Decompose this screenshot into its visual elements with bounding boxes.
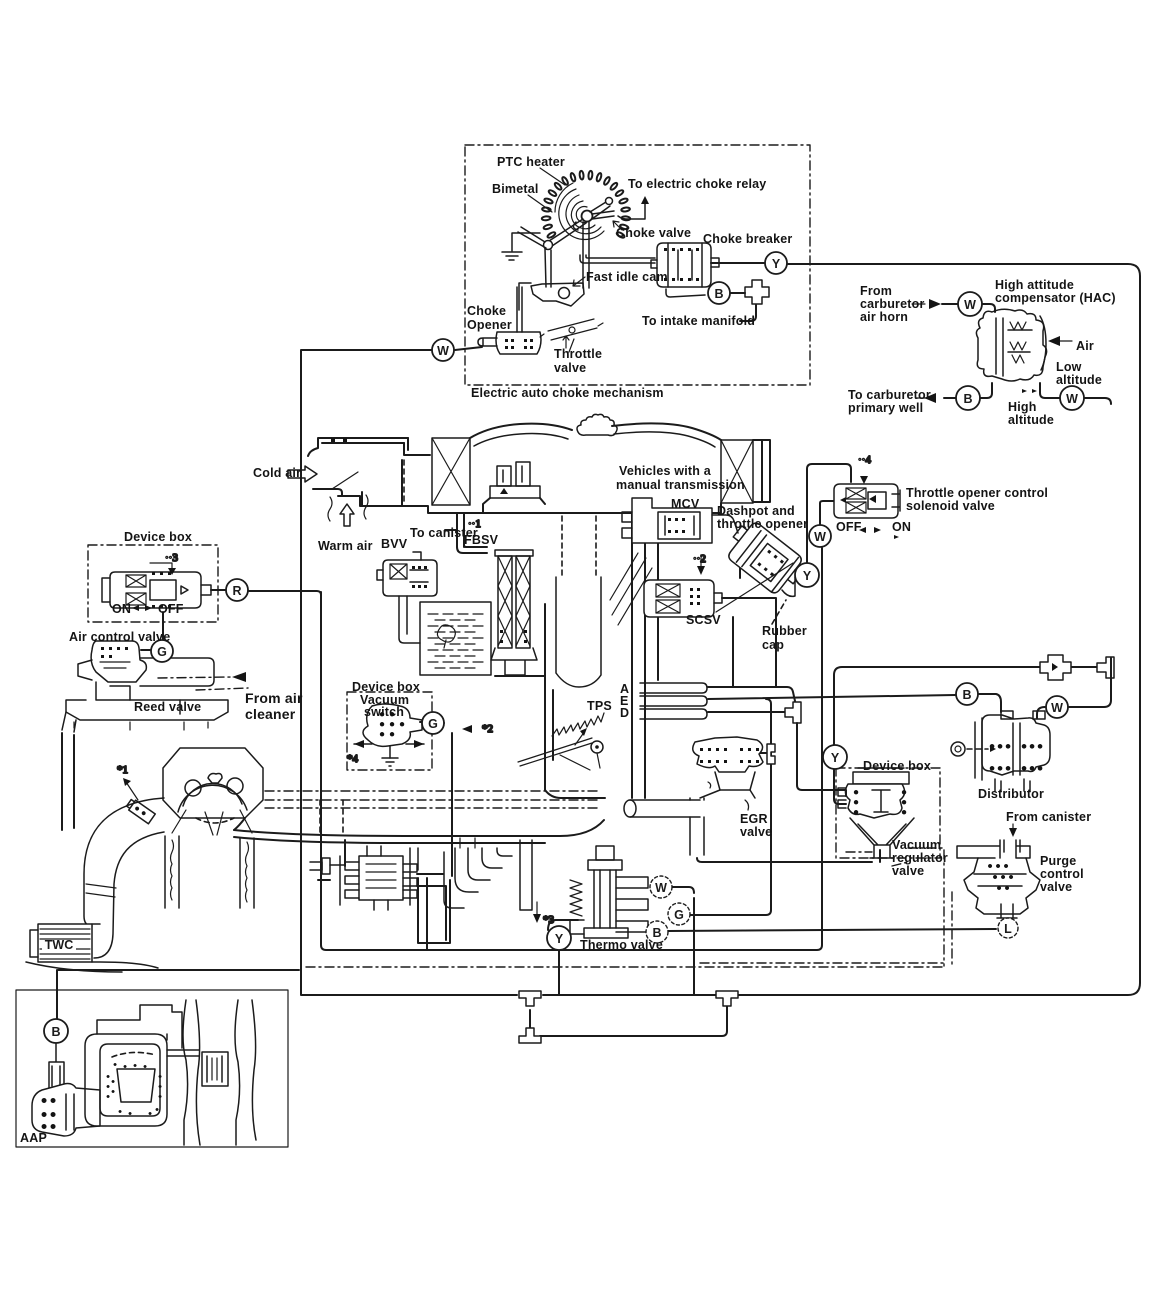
svg-text:W: W	[1051, 701, 1063, 715]
svg-text:ON: ON	[112, 602, 131, 616]
svg-text:Choke valve: Choke valve	[616, 226, 691, 240]
svg-text:solenoid valve: solenoid valve	[906, 499, 995, 513]
svg-text:B: B	[963, 392, 972, 406]
svg-text:BVV: BVV	[381, 537, 408, 551]
svg-text:switch: switch	[364, 705, 404, 719]
svg-text:Fast idle cam: Fast idle cam	[586, 270, 668, 284]
svg-text:To carburetor: To carburetor	[848, 388, 931, 402]
svg-text:W: W	[964, 298, 976, 312]
svg-text:air horn: air horn	[860, 310, 908, 324]
svg-text:Bimetal: Bimetal	[492, 182, 539, 196]
svg-text:Choke: Choke	[467, 304, 506, 318]
svg-text:Device box: Device box	[863, 759, 931, 773]
svg-text:Dashpot and: Dashpot and	[717, 504, 795, 518]
svg-text:PTC heater: PTC heater	[497, 155, 565, 169]
svg-text:W: W	[814, 530, 826, 544]
svg-text:OFF: OFF	[836, 520, 862, 534]
svg-text:Y: Y	[555, 932, 564, 946]
svg-text:control: control	[1040, 867, 1084, 881]
svg-text:altitude: altitude	[1056, 373, 1102, 387]
svg-text:To intake manifold: To intake manifold	[642, 314, 755, 328]
svg-text:L: L	[1004, 922, 1012, 936]
svg-text:G: G	[428, 717, 438, 731]
svg-text:G: G	[157, 645, 167, 659]
svg-text:Y: Y	[772, 257, 781, 271]
svg-text:Air control valve: Air control valve	[69, 630, 170, 644]
svg-text:Throttle opener control: Throttle opener control	[906, 486, 1048, 500]
svg-text:B: B	[51, 1025, 60, 1039]
svg-text:R: R	[232, 584, 241, 598]
svg-text:Y: Y	[803, 569, 812, 583]
svg-text:Y: Y	[831, 751, 840, 765]
svg-text:*4: *4	[347, 753, 359, 765]
svg-text:To electric choke relay: To electric choke relay	[628, 177, 766, 191]
svg-text:MCV: MCV	[671, 497, 700, 511]
svg-text:Choke breaker: Choke breaker	[703, 232, 792, 246]
svg-text:D: D	[620, 706, 629, 720]
svg-text:*2: *2	[482, 723, 493, 735]
svg-text:··4: ··4	[858, 454, 871, 466]
svg-text:··2: ··2	[693, 553, 706, 565]
svg-text:OFF: OFF	[158, 602, 184, 616]
svg-text:Vacuum: Vacuum	[892, 838, 941, 852]
svg-text:B: B	[714, 287, 723, 301]
svg-text:altitude: altitude	[1008, 413, 1054, 427]
svg-text:valve: valve	[892, 864, 924, 878]
svg-text:valve: valve	[740, 825, 772, 839]
svg-text:TWC: TWC	[45, 938, 73, 952]
svg-text:High attitude: High attitude	[995, 278, 1074, 292]
svg-text:carburetor: carburetor	[860, 297, 925, 311]
svg-text:ON: ON	[892, 520, 911, 534]
svg-text:Thermo valve: Thermo valve	[580, 938, 663, 952]
svg-text:··3: ··3	[165, 552, 178, 564]
svg-text:Rubber: Rubber	[762, 624, 807, 638]
svg-text:EGR: EGR	[740, 812, 768, 826]
svg-text:··1: ··1	[468, 518, 481, 530]
svg-text:Air: Air	[1076, 339, 1094, 353]
svg-text:W: W	[1066, 392, 1078, 406]
svg-text:W: W	[437, 344, 449, 358]
svg-text:High: High	[1008, 400, 1037, 414]
svg-text:Device box: Device box	[352, 680, 420, 694]
svg-text:Distributor: Distributor	[978, 787, 1044, 801]
svg-text:B: B	[962, 688, 971, 702]
svg-text:AAP: AAP	[20, 1131, 47, 1145]
svg-text:Electric auto choke mechanism: Electric auto choke mechanism	[471, 386, 664, 400]
svg-text:cleaner: cleaner	[245, 706, 296, 722]
svg-text:*1: *1	[117, 764, 128, 776]
svg-text:compensator (HAC): compensator (HAC)	[995, 291, 1116, 305]
svg-text:manual transmission: manual transmission	[616, 478, 745, 492]
svg-text:valve: valve	[1040, 880, 1072, 894]
svg-text:From: From	[860, 284, 892, 298]
svg-text:G: G	[674, 908, 684, 922]
svg-text:regulator: regulator	[892, 851, 948, 865]
svg-text:throttle opener: throttle opener	[717, 517, 808, 531]
svg-text:primary well: primary well	[848, 401, 923, 415]
svg-text:Reed valve: Reed valve	[134, 700, 201, 714]
svg-text:Cold air: Cold air	[253, 466, 301, 480]
svg-text:Warm air: Warm air	[318, 539, 373, 553]
svg-text:Throttle: Throttle	[554, 347, 602, 361]
svg-text:valve: valve	[554, 361, 586, 375]
svg-text:Device box: Device box	[124, 530, 192, 544]
svg-text:Opener: Opener	[467, 318, 512, 332]
svg-text:FBSV: FBSV	[464, 533, 499, 547]
svg-text:Purge: Purge	[1040, 854, 1076, 868]
svg-text:TPS: TPS	[587, 699, 612, 713]
svg-text:cap: cap	[762, 638, 784, 652]
svg-text:From air: From air	[245, 690, 303, 706]
svg-text:SCSV: SCSV	[686, 613, 721, 627]
svg-text:From canister: From canister	[1006, 810, 1091, 824]
svg-text:W: W	[655, 881, 667, 895]
svg-text:*3: *3	[543, 914, 555, 926]
svg-text:Vehicles with a: Vehicles with a	[619, 464, 712, 478]
svg-text:Low: Low	[1056, 360, 1082, 374]
